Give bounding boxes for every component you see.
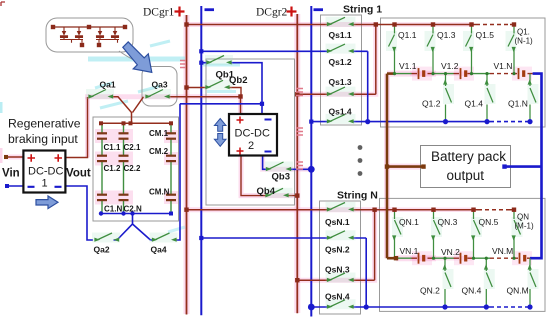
mosfet bubble callout xyxy=(46,18,133,52)
blue arrow down at DC-DC2 xyxy=(214,134,226,147)
svg-text:Qa3: Qa3 xyxy=(152,80,168,90)
switch Qb4 xyxy=(266,188,288,196)
svg-text:Vout: Vout xyxy=(66,168,91,180)
wire QsN.4 line / moduleN bottom rail xyxy=(311,306,530,308)
junction squares moduleN top rail xyxy=(392,208,516,212)
svg-text:Q1.: Q1. xyxy=(517,28,530,37)
switch QsN.2 xyxy=(328,231,354,239)
battery VN.2 xyxy=(460,253,468,264)
svg-text:C1.2: C1.2 xyxy=(104,164,121,173)
wire Qa1 to V junction into cap bank xyxy=(110,97,144,124)
highlight pink behind battery symbols xyxy=(412,67,432,81)
capacitor C1.N xyxy=(97,194,107,202)
svg-text:QN.M: QN.M xyxy=(507,286,529,296)
wire Qa2 lead segments xyxy=(114,239,118,241)
switch Qs1.2 xyxy=(328,44,354,52)
capacitor CM.1 xyxy=(166,132,176,140)
svg-text:QN.1: QN.1 xyxy=(399,217,419,227)
mint tint behind switches xyxy=(86,17,539,310)
switch Q1.3 xyxy=(427,25,434,74)
svg-text:Q1.2: Q1.2 xyxy=(422,99,441,109)
switch QN.2 xyxy=(444,258,452,307)
wire bottom V from cap bank to Qa2 Qa4 xyxy=(117,214,151,241)
svg-text:Qa2: Qa2 xyxy=(94,245,110,255)
highlight pink DC-DC1 plus row xyxy=(25,152,65,164)
switch Qb3 xyxy=(267,162,291,170)
switch QN.3 xyxy=(432,210,440,259)
wire QsN.2 line from blue bus1 xyxy=(201,237,366,239)
svg-text:QN.3: QN.3 xyxy=(438,217,458,227)
svg-text:Q1.5: Q1.5 xyxy=(476,30,495,40)
switch QN.4 xyxy=(485,258,493,307)
battery V1.1 xyxy=(418,68,426,79)
junction dots module1 bottom rail xyxy=(365,119,533,124)
switch QN.M xyxy=(529,258,537,307)
junction square DC-DC2 plus feed xyxy=(238,94,242,98)
bubble leader line xyxy=(119,51,148,67)
svg-text:Qa1: Qa1 xyxy=(100,80,116,90)
wire Qb2 line from DCgr1 xyxy=(187,88,242,97)
battery V1.2 xyxy=(460,68,468,79)
wire DCgr1 bus vertical xyxy=(186,15,188,315)
capacitor CM.2 xyxy=(166,155,176,163)
svg-text:C1.1: C1.1 xyxy=(104,143,121,152)
highlight pink along Qa1-Qa3 line to DC-DC2 xyxy=(85,97,241,114)
svg-text:Q1.3: Q1.3 xyxy=(437,30,456,40)
highlight dash marks on DCgr1 xyxy=(180,61,186,68)
capacitor C1.1 xyxy=(97,132,107,140)
junction square Qb1 corner xyxy=(260,102,264,106)
svg-text:VN.1: VN.1 xyxy=(400,246,419,256)
wire moduleN top rail xyxy=(375,209,514,211)
wire Qb4 path DC-DC2 plus to DCgr2 xyxy=(241,156,297,196)
capacitor C2.2 xyxy=(119,155,129,163)
svg-text:QN.2: QN.2 xyxy=(420,286,440,296)
wire moduleN battery row red leads xyxy=(412,257,531,259)
svg-text:Q1.1: Q1.1 xyxy=(398,30,417,40)
plus mark DCgr1 xyxy=(175,7,185,17)
wire Qs1.1 line from DCgr1 xyxy=(187,24,376,26)
highlight pink along QsN.1 line xyxy=(187,207,395,212)
wire Qs1.4 line / module1 bottom rail xyxy=(311,121,530,123)
wire thick battery feed vertical xyxy=(386,74,389,259)
svg-text:Qs1.1: Qs1.1 xyxy=(329,30,352,40)
wire thick feed to output box xyxy=(387,165,424,168)
wire output box negative lead xyxy=(505,165,542,168)
switch Qb1 xyxy=(207,56,231,64)
wire module1 battery row red leads xyxy=(412,73,533,75)
switch Q1.4 xyxy=(486,74,494,122)
wire cap column C2 green segments xyxy=(123,123,125,213)
wire Qb1 line from blue bus1 xyxy=(201,63,262,114)
svg-text:Qb2: Qb2 xyxy=(229,75,247,86)
minus mark blue bus2 top xyxy=(314,8,324,11)
switch Qs1.4 xyxy=(328,114,354,122)
svg-text:Qa4: Qa4 xyxy=(151,245,167,255)
junction square thick feed to output xyxy=(385,164,389,168)
svg-text:V1.2: V1.2 xyxy=(441,61,459,71)
ellipsis dots between string boxes xyxy=(358,145,363,176)
wire Qs1.3 line from DCgr2 xyxy=(297,93,376,95)
junction squares blue bus1 xyxy=(199,49,203,240)
highlight pink left edge sliver xyxy=(0,148,3,163)
highlight cyan streaks near Qa3 xyxy=(95,41,170,108)
wire DC-DC1 bottom to Qa2 xyxy=(66,186,94,240)
blue arrow callout to Qa3 xyxy=(123,42,152,73)
svg-text:2: 2 xyxy=(248,140,254,152)
wire thick feed corner into moduleN row xyxy=(387,257,396,260)
battery module 1 box xyxy=(381,18,546,127)
wire Qa4 lead segments xyxy=(151,239,154,241)
wire moduleN battery row green xyxy=(396,257,490,259)
svg-text:Battery pack: Battery pack xyxy=(431,149,506,164)
highlight pink along moduleN battery row xyxy=(410,256,472,261)
highlight pink behind cap bank columns xyxy=(95,129,133,143)
wire cap column C1 green segments xyxy=(101,123,103,213)
wire module1 top rail xyxy=(376,24,514,26)
wire blue bus 1 vertical xyxy=(200,6,202,315)
wire moduleN battery row dashed xyxy=(490,257,511,259)
switch QN.5 xyxy=(472,210,480,259)
battery pack output box xyxy=(421,146,511,188)
wire thick feed corner into module1 row xyxy=(387,72,395,75)
DC-DC2 section enclosure box xyxy=(206,59,295,205)
wire Vout to Qa1 riser xyxy=(66,97,88,158)
wire cap bank bottom rail xyxy=(101,213,171,215)
svg-text:QN.4: QN.4 xyxy=(462,286,482,296)
svg-text:Regenerative: Regenerative xyxy=(8,117,81,131)
svg-text:C2.2: C2.2 xyxy=(124,164,141,173)
blue arrow up at DC-DC2 xyxy=(214,119,226,132)
plus minus marks DC-DC1 xyxy=(28,154,63,162)
wire Qs1.1-Qs1.3 riser xyxy=(375,25,377,95)
terminal square Vin xyxy=(4,155,8,159)
svg-text:VN.2: VN.2 xyxy=(441,247,460,257)
wire QsN.2 riser down xyxy=(365,238,367,307)
plus minus marks DC-DC2 xyxy=(237,117,244,155)
svg-text:C2.1: C2.1 xyxy=(124,143,141,152)
junction square moduleN row start xyxy=(394,256,398,260)
wire module1 bottom rail dashed xyxy=(490,121,526,123)
junction squares module1 top rail xyxy=(392,22,516,26)
battery V1.N xyxy=(518,68,526,79)
switch QsN.3 xyxy=(328,273,354,281)
svg-text:DC-DC: DC-DC xyxy=(235,128,270,140)
highlight pink along Vout wire xyxy=(4,97,88,158)
svg-text:Qb3: Qb3 xyxy=(272,172,290,183)
svg-text:String N: String N xyxy=(337,190,378,202)
svg-text:braking input: braking input xyxy=(8,132,78,146)
highlight pink along moduleN top rail xyxy=(395,207,477,212)
junction squares cap bank top rail xyxy=(99,121,173,125)
wire module1 battery row green xyxy=(395,73,491,75)
wire moduleN top rail dashed xyxy=(478,209,510,211)
svg-text:(M-1): (M-1) xyxy=(515,222,534,231)
wire Vin negative stub xyxy=(7,185,23,187)
wire module1 battery row dashed xyxy=(490,73,511,75)
wire QsN.1-QsN.3 riser xyxy=(374,210,376,281)
mosfet pair left xyxy=(60,27,83,43)
svg-text:Qs1.3: Qs1.3 xyxy=(329,77,352,87)
svg-text:V1.N: V1.N xyxy=(494,61,513,71)
highlight pink along Qb3 path xyxy=(263,156,312,170)
svg-text:QsN.2: QsN.2 xyxy=(325,245,350,255)
DC-DC converter 2 box xyxy=(229,114,277,156)
cap bank enclosure box xyxy=(93,117,179,221)
wire module1 top rail dashed xyxy=(476,24,510,26)
String 1 box xyxy=(321,15,362,125)
highlight pink along Qs1.1/Qs1.3 select path xyxy=(187,25,376,95)
highlight pink along module1 battery row xyxy=(410,71,472,76)
corner mark top-left xyxy=(1,2,5,6)
String N box xyxy=(320,201,361,314)
highlight cyan under Qb1 Qb2 xyxy=(203,65,240,92)
wire moduleN bottom rail dashed xyxy=(490,306,526,308)
highlight pink along module1 top rail xyxy=(395,22,475,27)
wire Qs1.2 riser down xyxy=(367,51,369,121)
switch Q1.2 xyxy=(444,74,452,122)
svg-text:C2.N: C2.N xyxy=(124,205,142,214)
svg-text:Qs1.4: Qs1.4 xyxy=(329,107,352,117)
terminal square output box minus xyxy=(502,164,506,168)
capacitor C1.2 xyxy=(97,155,107,163)
highlight cyan band below bubble xyxy=(88,57,185,62)
junction dots moduleN bottom rail xyxy=(364,304,533,309)
svg-text:QN.5: QN.5 xyxy=(479,217,499,227)
switch QsN.4 xyxy=(328,300,354,308)
Qa3 rounded callout box xyxy=(142,67,177,107)
battery module N box xyxy=(380,198,546,311)
switch Qa4 xyxy=(153,233,177,241)
highlight pink along QsN.3 path xyxy=(297,210,374,281)
terminal square Vin minus xyxy=(5,184,9,188)
battery VN.1 xyxy=(418,253,426,264)
svg-text:DC-DC: DC-DC xyxy=(28,166,63,178)
wire Qa4 net to DC-DC2 top minus xyxy=(176,104,262,240)
svg-text:C1.N: C1.N xyxy=(104,205,122,214)
plus mark DCgr2 xyxy=(287,7,297,17)
switch Q1.N xyxy=(529,74,537,122)
wire cap bank top rail xyxy=(101,122,171,124)
switch Q1.5 xyxy=(466,25,473,74)
svg-text:Qs1.2: Qs1.2 xyxy=(329,57,352,67)
switch QsN.1 xyxy=(328,203,354,211)
switch Q1.N-1 xyxy=(508,25,515,74)
junction dots module1 battery row xyxy=(393,72,516,75)
switch Qa2 xyxy=(95,233,119,241)
highlight pink along DCgr1 bus xyxy=(184,15,190,314)
blue arrow regen input xyxy=(36,196,58,209)
DC-DC converter 1 box xyxy=(23,151,65,193)
wire Qa3 output to DC-DC2 plus xyxy=(168,97,241,114)
highlight cyan left edge sliver xyxy=(0,102,3,113)
switch Qs1.3 xyxy=(328,87,354,95)
svg-text:QsN.1: QsN.1 xyxy=(325,217,350,227)
mosfet pair right xyxy=(96,27,119,43)
switch QN.M-1 xyxy=(513,210,521,259)
wire common negative right side blue xyxy=(530,74,542,259)
wire cap column CM green segments xyxy=(170,123,172,213)
highlight cyan near Qa4 line xyxy=(168,227,185,232)
switch Qs1.1 xyxy=(328,17,354,25)
svg-text:(N-1): (N-1) xyxy=(515,37,534,46)
svg-text:V1.1: V1.1 xyxy=(399,61,417,71)
capacitor C2.1 xyxy=(119,132,129,140)
junction square QsN.1 riser top xyxy=(372,208,376,212)
svg-text:CM.1: CM.1 xyxy=(149,129,169,138)
highlight pink along Qb4 path xyxy=(241,156,297,196)
svg-text:QsN.4: QsN.4 xyxy=(325,292,350,302)
wire Qs1.2 line from blue bus1 xyxy=(201,50,367,52)
mosfet bubble terminals xyxy=(51,25,127,47)
battery VN.M xyxy=(519,253,527,264)
svg-text:QN: QN xyxy=(517,213,529,222)
junction squares red on DCgr2 xyxy=(295,92,299,282)
svg-text:1: 1 xyxy=(42,178,48,190)
svg-text:DCgr1: DCgr1 xyxy=(143,7,175,19)
wire DCgr2 bus vertical xyxy=(296,14,298,313)
junction dots cap bank bottom rail xyxy=(99,211,173,215)
highlight dash marks on DCgr2 xyxy=(296,89,303,170)
wire Qb3 path DC-DC2 minus to blue bus2 xyxy=(263,156,312,170)
capacitor C2.N xyxy=(119,194,129,202)
svg-text:Q1.N: Q1.N xyxy=(508,99,528,109)
switch Q1.1 xyxy=(389,25,396,74)
terminal square output box plus xyxy=(421,164,425,168)
minus mark blue bus1 top xyxy=(205,8,215,11)
mosfet bubble top rail xyxy=(53,26,125,28)
svg-text:Vin: Vin xyxy=(2,168,20,180)
wire QsN.1 line from DCgr1 xyxy=(187,209,375,211)
switch Qb2 xyxy=(206,80,229,88)
svg-text:VN.M: VN.M xyxy=(492,246,513,256)
wire QsN.3 line from DCgr2 xyxy=(297,279,374,281)
svg-text:output: output xyxy=(447,168,485,183)
svg-text:CM.2: CM.2 xyxy=(149,147,169,156)
capacitor CM.N xyxy=(166,194,176,202)
switch Qa1 xyxy=(89,90,113,98)
svg-text:Qb4: Qb4 xyxy=(257,186,276,197)
svg-text:Q1.4: Q1.4 xyxy=(465,99,484,109)
junction square Qs1.1 riser top xyxy=(374,22,378,26)
wire blue bus 2 vertical xyxy=(310,6,312,317)
junction squares blue bus2 xyxy=(308,120,315,311)
highlight pink along DCgr2 bus xyxy=(294,14,300,313)
junction dots moduleN battery row xyxy=(432,257,516,260)
svg-text:CM.N: CM.N xyxy=(149,188,170,197)
svg-text:String 1: String 1 xyxy=(343,4,382,16)
junction squares red on DCgr1 xyxy=(184,22,188,212)
wire Vin input stub xyxy=(6,156,23,158)
switch Qa3 xyxy=(146,90,169,98)
svg-text:QsN.3: QsN.3 xyxy=(325,265,350,275)
highlight pink along battery feed to output xyxy=(387,74,436,259)
switch QN.1 xyxy=(393,210,401,259)
svg-text:DCgr2: DCgr2 xyxy=(256,7,288,19)
